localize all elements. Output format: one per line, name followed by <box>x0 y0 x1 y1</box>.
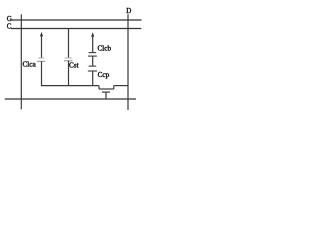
svg-text:Clcb: Clcb <box>98 45 112 53</box>
wire Clcb to Ccp lead <box>92 56 94 66</box>
capacitor Ccp plates <box>88 66 97 71</box>
capacitor Clcb plates <box>88 53 97 57</box>
transistor TFT source drop <box>98 86 100 89</box>
wire gate line G <box>12 19 142 21</box>
svg-text:Cst: Cst <box>69 62 79 70</box>
wire Ccp bottom lead <box>92 71 94 86</box>
capacitor Clcb arrow <box>91 32 94 52</box>
svg-text:C: C <box>7 22 12 30</box>
svg-text:D: D <box>126 7 131 15</box>
transistor TFT channel bar <box>99 88 114 90</box>
capacitor Clca plates <box>37 58 45 61</box>
transistor TFT drain rise <box>113 86 115 89</box>
svg-text:Ccp: Ccp <box>98 71 110 79</box>
capacitor Cst plates <box>64 58 72 61</box>
wire gate lead <box>105 92 107 99</box>
svg-text:Clca: Clca <box>23 60 37 68</box>
capacitor Clca arrow <box>40 32 43 58</box>
wire left bus vertical <box>20 14 22 109</box>
wire Cst top lead <box>68 29 70 58</box>
wire drain to D line <box>114 85 128 87</box>
wire Cst bottom lead <box>68 61 70 86</box>
wire common line C <box>11 28 141 30</box>
wire bottom line <box>5 98 136 100</box>
wire Clca bottom lead <box>41 61 43 85</box>
wire mid rail <box>41 85 99 87</box>
transistor TFT gate bar <box>102 91 110 93</box>
wire data line D vertical <box>127 14 129 110</box>
